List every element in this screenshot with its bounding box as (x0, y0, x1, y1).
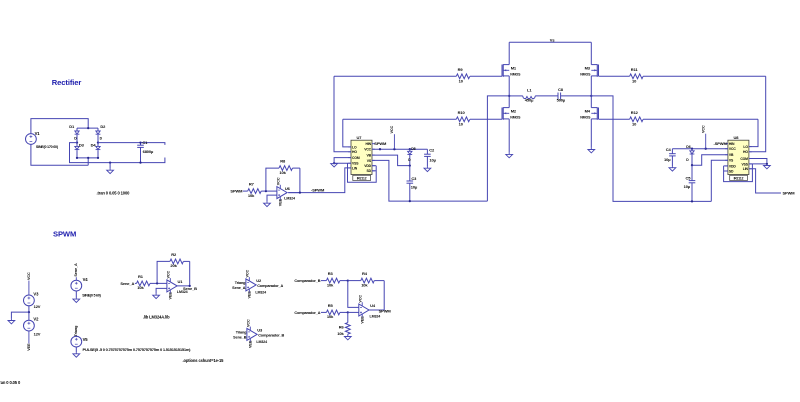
svg-text:VCC: VCC (27, 272, 31, 280)
svg-text:LM324: LM324 (255, 290, 266, 294)
power flag VEE V2 (27, 331, 31, 351)
svg-text:SD: SD (729, 169, 734, 173)
svg-text:D5: D5 (411, 147, 415, 151)
capacitor C5 (684, 165, 696, 201)
svg-text:10k: 10k (361, 282, 368, 287)
wire U7 VB route (372, 155, 410, 166)
svg-text:R10: R10 (458, 110, 466, 115)
diode D1 (69, 124, 79, 142)
wire summing node to inv input (348, 281, 359, 308)
wire U7 VCC line (372, 148, 427, 150)
net label Comparador_B at R3 (294, 279, 320, 283)
resistor R11 (599, 67, 766, 84)
wire V1 top to bridge top (31, 119, 88, 134)
node VCC flag tap right (705, 148, 707, 150)
node C3 bottom (409, 200, 411, 202)
svg-text:10k: 10k (279, 170, 286, 175)
svg-text:D6: D6 (686, 145, 690, 149)
resistor R3 (321, 271, 348, 287)
svg-text:VCC: VCC (167, 270, 171, 278)
wire V3 to V2 (28, 306, 30, 320)
node ground tap (109, 161, 111, 163)
svg-text:10: 10 (632, 79, 637, 84)
text tran directive rectifier (97, 190, 131, 195)
node bridge right mid (97, 141, 99, 143)
svg-text:M2: M2 (511, 109, 517, 114)
net label Sene_A at R1 (120, 281, 134, 286)
svg-text:LM324: LM324 (256, 340, 267, 344)
wire U8 LIN to SPWM (749, 169, 781, 193)
power flag VCC left (390, 125, 394, 149)
node C1 bottom (139, 161, 141, 163)
wire U7 VSS to ground (334, 162, 351, 164)
net label Sene_A at U2 (232, 286, 246, 290)
wire R11 to U8 HO (749, 76, 765, 152)
svg-text:LM324: LM324 (284, 197, 295, 201)
svg-text:U6: U6 (285, 186, 291, 191)
svg-text:10µ: 10µ (411, 185, 418, 190)
svg-text:10k: 10k (327, 314, 334, 319)
svg-text:SPWM: SPWM (783, 191, 796, 196)
svg-text:SPWM: SPWM (379, 308, 392, 313)
diode D6 (686, 145, 694, 165)
svg-text:10: 10 (459, 122, 464, 127)
svg-text:V1: V1 (35, 131, 41, 136)
svg-text:VCC: VCC (358, 295, 362, 303)
svg-text:D2: D2 (100, 124, 106, 129)
node supply mid (28, 311, 30, 313)
svg-text:V4: V4 (83, 277, 89, 282)
svg-text:R5: R5 (328, 303, 334, 308)
svg-text:R7: R7 (249, 182, 255, 187)
svg-text:Comparador_B: Comparador_B (294, 279, 320, 283)
svg-text:L1: L1 (527, 88, 532, 93)
net label SPWM at R7 input (230, 189, 243, 194)
ground rectifier (107, 169, 114, 174)
svg-text:R6: R6 (339, 324, 345, 329)
diode D5 (407, 147, 415, 166)
wire R4 to U4 output (369, 281, 384, 310)
wire mid to VS right (591, 96, 711, 201)
resistor R12 (599, 110, 759, 127)
svg-text:VB: VB (729, 153, 734, 157)
resistor R2 feedback (157, 252, 190, 286)
wire supply mid to ground (11, 312, 29, 319)
wire R12 to U8 LO (749, 119, 758, 146)
svg-text:Triang: Triang (74, 325, 78, 336)
svg-text:NMOS: NMOS (580, 115, 591, 119)
svg-text:C4: C4 (666, 147, 672, 152)
svg-text:10: 10 (459, 79, 464, 84)
svg-text:12V: 12V (34, 304, 41, 309)
svg-text:U3: U3 (257, 328, 263, 333)
svg-text:D: D (100, 137, 103, 141)
voltage source V5 (71, 336, 88, 347)
text lib directive (143, 315, 170, 320)
wire U7 VDD-SD loop (348, 163, 377, 182)
svg-text:PULSE(5 -5 0 0.7575757575m 0.7: PULSE(5 -5 0 0.7575757575m 0.7575757575m… (83, 347, 192, 352)
transistor M3 (580, 42, 598, 96)
net label Vs (550, 37, 556, 42)
net label Triang flag (74, 325, 78, 337)
svg-text:VCC: VCC (246, 269, 250, 277)
net label Comparador_A at R5 (294, 311, 320, 315)
svg-text:VCC: VCC (701, 125, 705, 133)
node U6 inverting input (265, 190, 267, 192)
op-amp U6 (277, 177, 296, 206)
svg-text:HIN: HIN (729, 142, 735, 146)
transistor M2 (502, 96, 521, 153)
ground M2 source (506, 153, 513, 158)
svg-text:R12: R12 (631, 110, 639, 115)
text tran directive bottom (0, 380, 21, 385)
svg-text:C2: C2 (429, 148, 435, 153)
op-amp U4 (358, 295, 380, 324)
svg-text:Rectifier: Rectifier (52, 78, 82, 87)
voltage source V4 (71, 277, 102, 297)
svg-text:R4: R4 (362, 271, 368, 276)
wire HO riser (334, 76, 351, 152)
svg-text:10: 10 (632, 122, 637, 127)
svg-text:Sene_B: Sene_B (233, 335, 247, 339)
svg-text:VCC: VCC (277, 177, 281, 185)
svg-text:M1: M1 (511, 66, 517, 71)
svg-text:R9: R9 (458, 67, 464, 72)
svg-text:20k: 20k (170, 263, 177, 268)
svg-text:.options cshunt=1e-15: .options cshunt=1e-15 (183, 358, 225, 363)
svg-text:U7: U7 (357, 135, 363, 140)
diode D2 (96, 124, 107, 142)
node bridge bottom left (76, 157, 78, 159)
transistor M1 (502, 42, 521, 96)
power flag VCC V3 (27, 272, 31, 295)
node C1 top (139, 141, 141, 143)
svg-text:COM: COM (740, 157, 748, 161)
node D6 anode (691, 148, 693, 150)
svg-text:LO: LO (743, 145, 748, 149)
ground U6 (264, 202, 271, 207)
wire U7 COM to ground (334, 158, 351, 164)
svg-text:VCC: VCC (390, 125, 394, 133)
net label Sene_A flag (74, 263, 78, 280)
net label Triang at U3 (236, 330, 247, 334)
svg-text:C8: C8 (558, 87, 564, 92)
ground V4 (73, 298, 80, 303)
node U8 ground (766, 163, 768, 165)
svg-text:10µ: 10µ (664, 157, 671, 162)
capacitor C2 (424, 148, 437, 167)
ground C4 (669, 166, 676, 171)
net label Sene_B at U1 output (183, 286, 197, 291)
voltage source V1 (26, 131, 59, 149)
title SPWM (53, 230, 76, 239)
svg-text:HO: HO (352, 150, 357, 154)
node bridge bottom mid (87, 157, 89, 159)
svg-text:D: D (686, 158, 689, 162)
svg-text:R11: R11 (631, 67, 639, 72)
text options directive (183, 358, 225, 363)
ground supplies (8, 319, 15, 324)
svg-text:VEE: VEE (360, 316, 364, 324)
ground M4 source (588, 148, 595, 153)
svg-text:IR2112: IR2112 (357, 177, 367, 181)
ground U7 (331, 162, 338, 167)
node C5 bottom (691, 200, 693, 202)
inductor L1 (509, 88, 558, 103)
resistor R1 (135, 274, 167, 290)
svg-text:R2: R2 (171, 252, 177, 257)
svg-text:SINE(0 170 60): SINE(0 170 60) (36, 145, 59, 149)
svg-text:R3: R3 (328, 271, 334, 276)
ground V5 (73, 352, 80, 357)
svg-text:D4: D4 (91, 143, 97, 148)
op-amp U2 (246, 269, 267, 298)
svg-text:LM324: LM324 (370, 314, 381, 318)
svg-text:VDD: VDD (364, 164, 371, 168)
net label SPWM right output (783, 191, 796, 196)
svg-text:Sene_B: Sene_B (183, 286, 197, 291)
wire U8 VB route (692, 155, 728, 166)
resistor R5 (321, 303, 348, 319)
voltage source V3 (24, 291, 41, 309)
node U1 inverting input (156, 282, 158, 284)
wire U8 VS route (711, 160, 728, 201)
op-amp driver IC U7 IR2112 (348, 135, 375, 181)
svg-text:VEE: VEE (169, 292, 173, 300)
svg-text:SPWM: SPWM (53, 230, 76, 239)
net label SPWM at U4 output (379, 308, 392, 313)
net label SPWM at U7 HIN (374, 141, 387, 146)
svg-text:SPWM: SPWM (374, 141, 387, 146)
svg-text:LO: LO (352, 145, 357, 149)
svg-text:Comparador_A: Comparador_A (294, 311, 320, 315)
wire Vs top rail (509, 41, 591, 43)
wire U8 VDD-SD loop (724, 164, 753, 182)
op-amp U3 (247, 319, 268, 348)
svg-text:10k: 10k (137, 285, 144, 290)
svg-text:VEE: VEE (279, 198, 283, 206)
svg-text:U4: U4 (370, 303, 376, 308)
node bridge left mid (76, 141, 78, 143)
svg-text:.lib LM324A.lib: .lib LM324A.lib (143, 315, 170, 320)
node bridge top (87, 127, 89, 129)
ground R6 (344, 335, 351, 340)
resistor R9 (334, 67, 502, 84)
net label Triang at U2 (235, 281, 246, 285)
resistor R7 (243, 182, 277, 198)
svg-text:500µ: 500µ (557, 98, 566, 103)
diode D3 (75, 143, 85, 158)
node VCC a (379, 148, 381, 150)
svg-text:12V: 12V (34, 332, 41, 337)
svg-text:450µ: 450µ (525, 98, 534, 103)
svg-text:HO: HO (743, 150, 748, 154)
svg-text:COM: COM (352, 156, 360, 160)
wire bridge bottom to AC2 (87, 158, 89, 165)
net label Sene_B at U3 (233, 335, 247, 339)
svg-text:Triang: Triang (235, 281, 246, 285)
svg-text:Sene_A: Sene_A (120, 281, 134, 286)
diode D4 (91, 143, 101, 158)
resistor R6 (337, 312, 350, 336)
svg-text:R1: R1 (138, 274, 144, 279)
wire V5 to ground (75, 347, 77, 352)
svg-text:10µ: 10µ (429, 157, 436, 162)
wire bridge bottom rail (77, 157, 98, 159)
net label -SPWM at U6 output (311, 187, 325, 192)
svg-text:M4: M4 (585, 109, 591, 114)
svg-text:VB: VB (367, 154, 372, 158)
node bridge bottom right (97, 157, 99, 159)
svg-text:-SPWM: -SPWM (311, 187, 325, 192)
svg-text:LIN: LIN (352, 166, 358, 170)
wire ground stem (109, 163, 111, 169)
node U1 output (189, 285, 191, 287)
svg-text:10k: 10k (337, 331, 344, 336)
svg-text:R8: R8 (280, 159, 286, 164)
svg-text:-SPWM: -SPWM (714, 141, 728, 146)
svg-text:V2: V2 (33, 317, 39, 322)
wire U7 LIN to -SPWM (288, 168, 351, 193)
voltage source V2 (24, 317, 41, 337)
node U7 ground (333, 162, 335, 164)
wire bridge top rail (77, 127, 98, 129)
svg-text:U8: U8 (734, 135, 740, 140)
capacitor C4 (664, 147, 676, 166)
svg-text:M3: M3 (585, 66, 591, 71)
transistor M4 (580, 96, 598, 148)
svg-text:10µ: 10µ (684, 184, 691, 189)
svg-text:NMOS: NMOS (510, 72, 521, 76)
svg-text:LIN: LIN (743, 167, 749, 171)
op-amp driver IC U8 IR2112 (725, 135, 752, 181)
wire U6 noninv to ground (267, 195, 277, 202)
wire U8 VSS to ground (749, 163, 767, 165)
svg-text:U2: U2 (256, 278, 262, 283)
wire V4 to ground (75, 291, 77, 298)
svg-text:D3: D3 (79, 143, 85, 148)
title Rectifier (52, 78, 82, 87)
svg-text:VEE: VEE (249, 340, 253, 348)
svg-text:VDD: VDD (729, 164, 736, 168)
svg-text:U1: U1 (178, 279, 184, 284)
svg-text:VEE: VEE (248, 291, 252, 299)
svg-text:NMOS: NMOS (580, 72, 591, 76)
svg-text:Triang: Triang (236, 330, 247, 334)
wire U7 VS route (372, 160, 487, 201)
svg-text:Comparador_A: Comparador_A (257, 284, 283, 288)
ground U1 (153, 294, 160, 299)
node D5 cathode (409, 164, 411, 166)
svg-text:NMOS: NMOS (510, 115, 521, 119)
net label -SPWM at U8 HIN (714, 141, 728, 146)
wire DC plus rail (98, 143, 165, 145)
svg-text:VCC: VCC (729, 147, 736, 151)
capacitor C1 (137, 140, 154, 162)
svg-text:C5: C5 (686, 175, 692, 180)
node VCC flag tap (393, 148, 395, 150)
op-amp U1 (167, 270, 188, 299)
wire mid to VS left (487, 96, 509, 201)
node R3 R4 junction (347, 279, 349, 281)
capacitor C3 (407, 166, 419, 202)
resistor R10 (343, 110, 502, 127)
svg-text:VSS: VSS (741, 162, 748, 166)
ground C2 (424, 167, 431, 172)
node D6 cathode (691, 164, 693, 166)
net label Comparador_A (257, 284, 283, 288)
svg-text:D: D (408, 158, 411, 162)
svg-text:V5: V5 (83, 337, 89, 342)
node half-bridge right mid (590, 95, 592, 97)
svg-text:VCC: VCC (247, 319, 251, 327)
svg-text:VSS: VSS (352, 162, 359, 166)
node U6 output (299, 191, 301, 193)
svg-text:V3: V3 (33, 291, 39, 296)
svg-text:.tran 0 0.05 0 1000: .tran 0 0.05 0 1000 (97, 190, 131, 195)
node R5 R6 junction (347, 311, 349, 313)
svg-text:SPWM: SPWM (230, 189, 243, 194)
svg-text:Sene_A: Sene_A (74, 263, 78, 277)
svg-text:C3: C3 (411, 176, 417, 181)
wire DC minus rail (70, 143, 165, 163)
svg-text:Vs: Vs (550, 37, 556, 42)
svg-text:.tran 0 0.05 0: .tran 0 0.05 0 (0, 380, 21, 385)
svg-text:SINE(0 5 60): SINE(0 5 60) (82, 294, 101, 298)
wire LO riser (343, 119, 351, 147)
svg-text:IR2112: IR2112 (734, 177, 744, 181)
svg-text:10k: 10k (327, 282, 334, 287)
power flag VCC right (701, 125, 705, 149)
net label Comparador_B (258, 334, 284, 338)
svg-text:Comparador_B: Comparador_B (258, 334, 284, 338)
svg-text:10k: 10k (248, 193, 255, 198)
svg-text:6800µ: 6800µ (143, 149, 154, 154)
capacitor C8 (557, 87, 592, 103)
svg-text:VEE: VEE (27, 343, 31, 351)
resistor R8 feedback (266, 159, 300, 193)
wire V1 bottom return (31, 144, 88, 165)
wire R5 node to noninv input (348, 311, 359, 313)
wire U8 COM to ground (749, 159, 767, 164)
resistor R4 (348, 271, 384, 287)
wire U8 VCC line (672, 148, 728, 150)
svg-text:SD: SD (367, 169, 372, 173)
svg-text:D1: D1 (69, 124, 75, 129)
text V5 pulse value (83, 347, 192, 352)
wire U1 noninv to ground (156, 288, 167, 293)
node D5 anode (409, 148, 411, 150)
svg-text:Sene_A: Sene_A (232, 286, 246, 290)
ground U8 (764, 164, 771, 169)
svg-text:VCC: VCC (364, 148, 371, 152)
svg-text:HIN: HIN (366, 142, 372, 146)
node half-bridge left mid (508, 95, 510, 97)
